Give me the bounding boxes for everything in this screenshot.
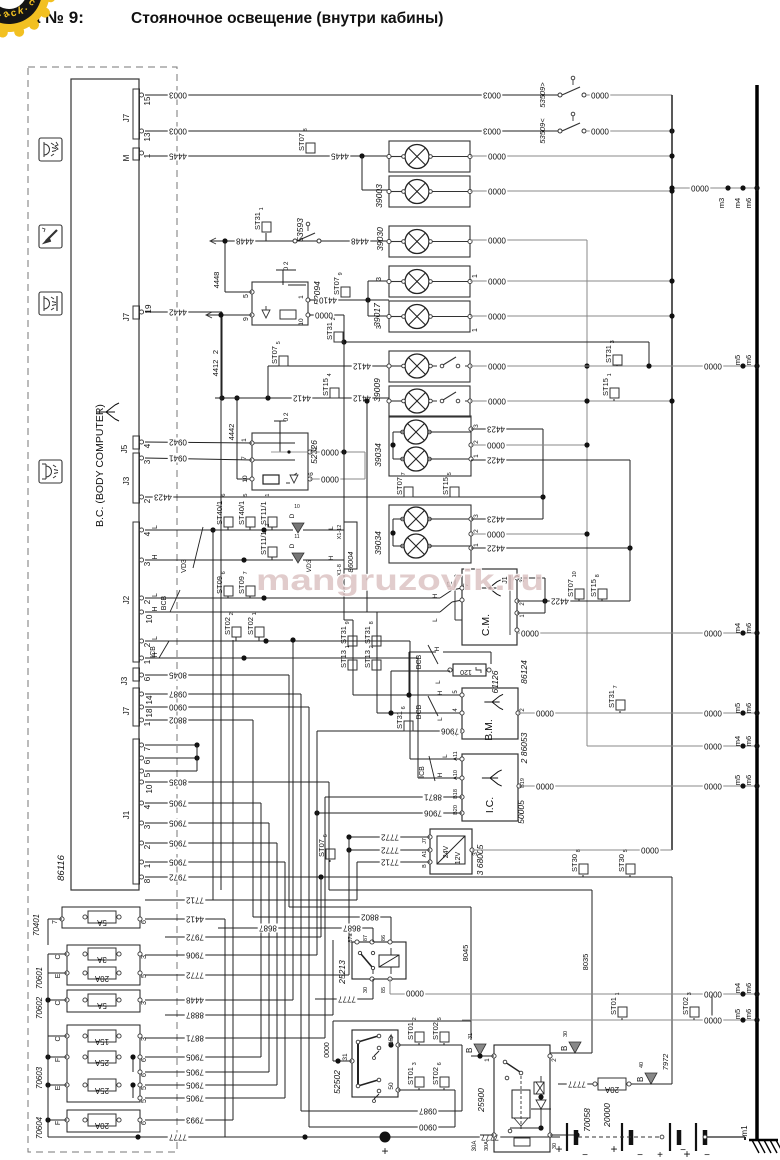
svg-text:0000: 0000 bbox=[488, 151, 506, 160]
svg-text:J2: J2 bbox=[122, 595, 131, 604]
svg-text:3: 3 bbox=[143, 561, 152, 566]
wire 52502 pin50 bbox=[398, 1090, 455, 1127]
svg-text:0987: 0987 bbox=[419, 1106, 437, 1115]
svg-text:ST01: ST01 bbox=[406, 1067, 415, 1085]
connector J1 pins bbox=[122, 739, 154, 884]
svg-text:ICB: ICB bbox=[150, 646, 157, 658]
svg-text:m6: m6 bbox=[744, 355, 753, 365]
svg-text:10: 10 bbox=[298, 318, 305, 326]
wire 4445 pin M1 to lamps 39003 bbox=[145, 151, 389, 190]
svg-text:ST31: ST31 bbox=[395, 711, 404, 729]
svg-text:2 86053: 2 86053 bbox=[519, 732, 529, 764]
header title bbox=[0, 8, 443, 27]
svg-text:8871: 8871 bbox=[186, 1033, 204, 1042]
svg-text:7: 7 bbox=[52, 920, 59, 924]
svg-text:30: 30 bbox=[563, 1031, 569, 1037]
splice ST07 9 on wire 4410 bbox=[332, 272, 350, 297]
reference 52502 bbox=[332, 1070, 342, 1094]
svg-text:J3: J3 bbox=[120, 676, 129, 685]
wire J2-2 L to C.M. bbox=[145, 588, 462, 601]
wire J1-5 stub bbox=[145, 770, 197, 772]
splice ST07 7 bbox=[395, 472, 413, 497]
svg-text:ST07: ST07 bbox=[395, 477, 404, 495]
svg-text:7: 7 bbox=[613, 685, 619, 688]
splice ST15 8 bbox=[589, 574, 607, 601]
svg-text:0000: 0000 bbox=[521, 628, 539, 637]
svg-text:C.M.: C.M. bbox=[480, 614, 492, 636]
svg-text:−: − bbox=[704, 1150, 710, 1160]
wire 0942 pin J5-4 to 52326 bbox=[145, 437, 252, 446]
svg-text:61126: 61126 bbox=[490, 670, 500, 693]
wire 7905 fuse 70603b bbox=[145, 1052, 261, 1061]
svg-text:8045: 8045 bbox=[461, 945, 470, 962]
reference 25900 bbox=[476, 1088, 486, 1113]
ground label m4 m6 at 633 bbox=[733, 623, 753, 633]
svg-text:mangruzovik.ru: mangruzovik.ru bbox=[256, 564, 544, 597]
splice ST31 2 bbox=[325, 317, 343, 342]
wire 0000 39034b pin2 bbox=[471, 529, 590, 538]
svg-text:10: 10 bbox=[294, 504, 300, 510]
wire 7972 pin J1-8 bbox=[145, 872, 672, 1020]
svg-text:m5: m5 bbox=[733, 1009, 742, 1019]
svg-text:20A: 20A bbox=[94, 1121, 109, 1130]
svg-text:M: M bbox=[122, 154, 131, 161]
reference 86053 bbox=[519, 732, 529, 764]
pin J7-13 bbox=[139, 129, 152, 142]
wire 7905 pin J1-4 bbox=[145, 798, 261, 1057]
wire 8045 drop to main switch bbox=[461, 907, 471, 1021]
svg-text:3A: 3A bbox=[96, 955, 106, 964]
wire J2-1 H to I.C. bbox=[145, 652, 462, 778]
wire 0000 B.M. to ground m5 m6 bbox=[518, 708, 760, 717]
svg-text:15: 15 bbox=[143, 96, 152, 105]
svg-text:7906: 7906 bbox=[441, 726, 459, 735]
svg-text:50005: 50005 bbox=[516, 800, 526, 824]
wire 0000 switch b to bus bbox=[586, 126, 675, 135]
svg-text:7777: 7777 bbox=[169, 1132, 187, 1141]
svg-text:0000: 0000 bbox=[704, 989, 722, 998]
switch 53509< bbox=[538, 112, 586, 143]
svg-text:J1: J1 bbox=[122, 810, 131, 819]
wire 4442 to 52326 pin10 bbox=[227, 395, 252, 479]
splice ST09 a bbox=[215, 571, 233, 598]
bed module B.M. box bbox=[453, 688, 526, 741]
svg-text:ST07: ST07 bbox=[566, 579, 575, 597]
wire 52502 pin15 bbox=[398, 1045, 462, 1111]
svg-text:5: 5 bbox=[447, 472, 453, 475]
wire 0941 pin J3-3 to 52326 bbox=[145, 453, 252, 462]
wire 4423 39034b pin3 bbox=[471, 514, 543, 523]
wire BCB L to 61126 bbox=[391, 671, 450, 713]
svg-text:7972: 7972 bbox=[169, 872, 187, 881]
svg-text:70603: 70603 bbox=[35, 1066, 44, 1089]
ground label m5 m6 at 713 bbox=[733, 703, 753, 713]
svg-text:8802: 8802 bbox=[361, 912, 379, 921]
svg-text:ST09: ST09 bbox=[215, 576, 224, 594]
reference 50005 bbox=[516, 800, 526, 824]
lamp 39030 bbox=[387, 226, 472, 257]
svg-text:ST07: ST07 bbox=[332, 277, 341, 295]
svg-text:7905: 7905 bbox=[186, 1067, 204, 1076]
wire 0900 pin J7-18 bbox=[145, 702, 455, 1131]
wire 4412 branch to lamp 39009a bbox=[268, 361, 389, 398]
svg-text:ST11/1: ST11/1 bbox=[259, 501, 268, 525]
wire 8035 pin J1-10 bbox=[145, 777, 592, 1053]
wire 4422 C.M. pin2 bbox=[517, 596, 630, 605]
battery cells 20000 bbox=[555, 1123, 745, 1160]
svg-text:7905: 7905 bbox=[169, 838, 187, 847]
wire J2-4 L to diode D10 bbox=[145, 525, 344, 533]
svg-text:2: 2 bbox=[551, 1058, 558, 1062]
svg-text:7972: 7972 bbox=[186, 932, 204, 941]
splice ST30 8 bbox=[570, 849, 588, 877]
svg-text:0941: 0941 bbox=[169, 453, 187, 462]
reference 68005 bbox=[475, 844, 485, 875]
wire 7772 to 68005 A1 bbox=[346, 845, 430, 854]
svg-text:+: + bbox=[381, 1144, 388, 1158]
splice ST31 7 bbox=[607, 685, 625, 713]
svg-text:8887: 8887 bbox=[186, 1010, 204, 1019]
lamp-switch 39009 upper bbox=[387, 351, 472, 382]
svg-text:86: 86 bbox=[381, 935, 387, 941]
vertical feed A to B.M. bbox=[344, 342, 462, 698]
svg-text:7905: 7905 bbox=[186, 1080, 204, 1089]
svg-text:m5: m5 bbox=[733, 355, 742, 365]
svg-text:87: 87 bbox=[363, 935, 369, 941]
svg-text:ST07: ST07 bbox=[297, 133, 306, 151]
svg-text:8871: 8871 bbox=[424, 792, 442, 801]
svg-text:A10: A10 bbox=[453, 770, 459, 780]
svg-text:39009: 39009 bbox=[372, 378, 382, 402]
svg-text:B: B bbox=[422, 864, 428, 868]
svg-text:H: H bbox=[328, 555, 335, 560]
svg-text:m6: m6 bbox=[744, 983, 753, 993]
lamp 39003 lower bbox=[387, 176, 472, 207]
svg-text:ST02: ST02 bbox=[246, 617, 255, 635]
wire 0000 relay 85 to ground m4 m6 bbox=[390, 979, 760, 999]
svg-text:4: 4 bbox=[143, 443, 152, 448]
ground label m4 m6 at 994 bbox=[733, 983, 753, 993]
connector M pin 1 bbox=[122, 148, 152, 161]
bolt ground B30 right bbox=[560, 995, 712, 1053]
svg-text:0000: 0000 bbox=[691, 183, 709, 192]
reference 39034 second bbox=[373, 531, 383, 555]
svg-text:J3: J3 bbox=[122, 476, 131, 485]
wire 0000 C.M. pin9 to ground m4 m6 bbox=[517, 628, 760, 637]
svg-text:m1: m1 bbox=[740, 1125, 749, 1137]
svg-text:0000: 0000 bbox=[591, 126, 609, 135]
svg-text:14: 14 bbox=[145, 695, 154, 704]
svg-text:85: 85 bbox=[381, 987, 387, 993]
svg-text:B: B bbox=[560, 1046, 569, 1051]
svg-text:0000: 0000 bbox=[321, 447, 339, 456]
svg-text:0003: 0003 bbox=[483, 90, 501, 99]
splice ST02 b bbox=[246, 612, 264, 641]
wire 4422 39034a pin1 bbox=[471, 455, 633, 601]
svg-text:18: 18 bbox=[145, 708, 154, 717]
connector J7 top bbox=[122, 89, 140, 139]
svg-text:ST31: ST31 bbox=[325, 322, 334, 340]
svg-text:4412: 4412 bbox=[293, 393, 311, 402]
svg-text:0000: 0000 bbox=[488, 361, 506, 370]
svg-text:m4: m4 bbox=[733, 198, 742, 208]
wire 0000 to ground m5 m6 at 1020 bbox=[462, 1015, 760, 1045]
label ICB pair2 bbox=[419, 756, 435, 781]
svg-text:1: 1 bbox=[252, 612, 258, 615]
splice ST09 b bbox=[237, 571, 255, 598]
svg-text:4448: 4448 bbox=[236, 236, 254, 245]
svg-text:m6: m6 bbox=[744, 775, 753, 785]
svg-text:10: 10 bbox=[145, 614, 154, 623]
ground label m4 m6 at 746 bbox=[733, 736, 753, 746]
svg-text:A1: A1 bbox=[422, 851, 428, 858]
long vertical wire 2 from 52094 bbox=[218, 312, 223, 890]
resistor 61126 120ohm bbox=[448, 664, 491, 676]
svg-text:2: 2 bbox=[473, 529, 480, 533]
svg-text:m6: m6 bbox=[744, 1009, 753, 1019]
wire 0003 pin13 to switch 53509b bbox=[145, 126, 558, 135]
svg-text:70602: 70602 bbox=[35, 996, 44, 1019]
connector J7 pins 14 18 1 bbox=[122, 688, 154, 726]
svg-text:ST31: ST31 bbox=[607, 690, 616, 708]
reference 70602 bbox=[35, 996, 44, 1019]
switch 53509> bbox=[538, 76, 586, 107]
wire 0000 to ground m4 m6 at 746 bbox=[587, 741, 760, 750]
splice ST31 8 bbox=[363, 621, 381, 646]
reference 86124 bbox=[519, 660, 529, 684]
splice ST07 8 on wire 4445 bbox=[297, 128, 315, 153]
svg-text:7: 7 bbox=[241, 456, 248, 460]
battery positive node bbox=[380, 1132, 391, 1159]
svg-text:ST02: ST02 bbox=[681, 997, 690, 1015]
wire 4412 to lamp 39009b bbox=[215, 393, 389, 402]
svg-text:25A: 25A bbox=[94, 1086, 109, 1095]
svg-text:X1-12: X1-12 bbox=[337, 525, 343, 540]
reference 61126 bbox=[490, 670, 500, 693]
svg-text:H: H bbox=[437, 690, 444, 695]
splice ST31 3 bbox=[604, 340, 622, 366]
svg-text:ICB: ICB bbox=[419, 766, 426, 778]
svg-text:13: 13 bbox=[143, 132, 152, 141]
svg-text:m6: m6 bbox=[744, 736, 753, 746]
svg-text:10: 10 bbox=[572, 571, 578, 577]
splice ST02 3 bbox=[681, 992, 699, 1020]
svg-text:9: 9 bbox=[243, 317, 250, 321]
splice ST01 1 bbox=[609, 992, 627, 1020]
svg-text:4423: 4423 bbox=[487, 514, 505, 523]
svg-text:40: 40 bbox=[639, 1062, 645, 1068]
svg-text:4412: 4412 bbox=[353, 361, 371, 370]
svg-text:ST15: ST15 bbox=[589, 579, 598, 597]
svg-text:1: 1 bbox=[607, 373, 613, 376]
ignition switch 52502 bbox=[342, 1030, 400, 1103]
svg-text:3 68005: 3 68005 bbox=[475, 844, 485, 875]
svg-text:H: H bbox=[434, 646, 441, 651]
svg-text:86116: 86116 bbox=[56, 854, 67, 880]
wire 25900 30 to battery plus bbox=[550, 1132, 580, 1137]
svg-text:39034: 39034 bbox=[373, 443, 383, 467]
label BCB pair1 bbox=[161, 590, 439, 622]
splice ST11/1 a bbox=[259, 494, 277, 530]
svg-text:ST02: ST02 bbox=[223, 617, 232, 635]
wire 4448 fuse 70602 bbox=[145, 637, 296, 1004]
svg-text:C: C bbox=[55, 1036, 62, 1041]
svg-text:3: 3 bbox=[143, 824, 152, 829]
svg-text:24V: 24V bbox=[443, 845, 450, 858]
reference 70604 bbox=[35, 1116, 44, 1139]
svg-text:3: 3 bbox=[141, 955, 148, 959]
svg-text:1: 1 bbox=[484, 1058, 491, 1062]
svg-text:ST15: ST15 bbox=[601, 378, 610, 396]
svg-text:E: E bbox=[55, 973, 62, 978]
svg-text:1: 1 bbox=[473, 543, 480, 547]
wire 7906 to B.M. pin1 bbox=[317, 726, 462, 735]
wire 0000 I.C. to ground m5 m6 bbox=[519, 781, 760, 790]
svg-text:4448: 4448 bbox=[186, 995, 204, 1004]
svg-text:ST31: ST31 bbox=[253, 212, 262, 230]
svg-text:m3: m3 bbox=[717, 198, 726, 208]
wire 7777 bottom bbox=[48, 1132, 560, 1141]
svg-text:m5: m5 bbox=[733, 703, 742, 713]
B.C. body computer block bbox=[71, 79, 139, 890]
relay 25213 bbox=[348, 932, 406, 993]
label BCB pair2 bbox=[416, 645, 438, 669]
reference 70601 bbox=[35, 967, 44, 989]
svg-text:0000: 0000 bbox=[536, 781, 554, 790]
svg-text:8: 8 bbox=[595, 574, 601, 577]
svg-text:70604: 70604 bbox=[35, 1116, 44, 1139]
splice ST15 5 bbox=[441, 472, 459, 497]
svg-text:B: B bbox=[636, 1077, 645, 1082]
ground label m5 m6 wire at 365 bbox=[0, 0, 1, 1]
ground symbol m1 bbox=[740, 1125, 780, 1153]
svg-text:0000: 0000 bbox=[704, 781, 722, 790]
wire 4448 switch 53593 line bbox=[210, 236, 389, 245]
splice ST02 6 bbox=[431, 1062, 449, 1090]
svg-text:4442: 4442 bbox=[169, 307, 187, 316]
svg-text:25213: 25213 bbox=[337, 960, 347, 985]
svg-text:70401: 70401 bbox=[32, 914, 41, 936]
svg-text:ST15: ST15 bbox=[321, 378, 330, 396]
vertical feed B to B.M. bbox=[364, 398, 462, 715]
svg-text:70601: 70601 bbox=[35, 967, 44, 989]
svg-text:ST09: ST09 bbox=[237, 576, 246, 594]
svg-text:2: 2 bbox=[473, 440, 480, 444]
wire 0003 pin15 to switch 53509a bbox=[145, 90, 558, 99]
svg-text:Стояночное освещение (внутри к: Стояночное освещение (внутри кабины) bbox=[131, 10, 443, 27]
svg-text:B.C. (BODY COMPUTER): B.C. (BODY COMPUTER) bbox=[94, 404, 106, 527]
reference 39017 bbox=[372, 303, 382, 327]
svg-text:5: 5 bbox=[243, 494, 249, 497]
svg-text:2: 2 bbox=[143, 498, 152, 503]
svg-text:ST31: ST31 bbox=[604, 345, 613, 363]
svg-text:H: H bbox=[152, 606, 159, 611]
svg-text:86124: 86124 bbox=[519, 660, 529, 684]
wire 4422 39034b pin1 bbox=[471, 543, 630, 552]
svg-text:2: 2 bbox=[265, 524, 271, 527]
svg-text:L: L bbox=[435, 680, 442, 684]
wire 0000 lamp 39030 return bbox=[470, 235, 590, 446]
svg-text:0000: 0000 bbox=[704, 628, 722, 637]
wire 7905 row4 bbox=[145, 1093, 285, 1102]
splice ST07 6 bbox=[317, 834, 335, 862]
svg-text:+: + bbox=[657, 1150, 663, 1160]
wire 7906 fuse 70601a bbox=[145, 731, 317, 960]
svg-text:53509>: 53509> bbox=[538, 82, 547, 108]
svg-text:0900: 0900 bbox=[419, 1122, 437, 1131]
wire 0000 52502 pin31 bbox=[324, 1021, 471, 1064]
reference 39003 bbox=[374, 184, 384, 208]
svg-text:8035: 8035 bbox=[169, 777, 187, 786]
svg-text:2: 2 bbox=[369, 645, 375, 648]
wire 0000 lamp 39003b return bbox=[470, 186, 675, 195]
svg-text:0000: 0000 bbox=[704, 741, 722, 750]
svg-text:L: L bbox=[432, 618, 439, 622]
svg-text:8: 8 bbox=[303, 128, 309, 131]
svg-text:8035: 8035 bbox=[581, 954, 590, 971]
svg-text:7972: 7972 bbox=[661, 1053, 670, 1071]
wire 7993 fuse 70604 bbox=[145, 640, 233, 1125]
splice ST15 1 bbox=[601, 373, 619, 401]
svg-text:4448: 4448 bbox=[212, 272, 221, 289]
svg-text:7905: 7905 bbox=[186, 1093, 204, 1102]
svg-text:L: L bbox=[152, 525, 159, 529]
svg-text:m6: m6 bbox=[744, 198, 753, 208]
svg-text:20A: 20A bbox=[604, 1085, 619, 1094]
splice ST02 5 bbox=[431, 1017, 449, 1045]
pin J7-15 bbox=[139, 93, 152, 106]
svg-text:7906: 7906 bbox=[186, 950, 204, 959]
svg-text:0003: 0003 bbox=[169, 90, 187, 99]
wire 7905 pin J1-3 bbox=[145, 818, 269, 1072]
svg-text:10: 10 bbox=[242, 475, 249, 483]
long vertical pair a bbox=[210, 527, 215, 900]
svg-text:ST01: ST01 bbox=[406, 1022, 415, 1040]
svg-text:5: 5 bbox=[143, 772, 152, 777]
svg-text:5: 5 bbox=[437, 1017, 443, 1020]
svg-text:0942: 0942 bbox=[169, 437, 187, 446]
wire 0000 lamp 39017b return bbox=[470, 311, 675, 320]
svg-text:6: 6 bbox=[323, 834, 329, 837]
svg-text:6: 6 bbox=[221, 571, 227, 574]
wire 8802 pin J7-1 bbox=[145, 715, 391, 942]
svg-text:+: + bbox=[683, 1147, 690, 1160]
return bus vertical bbox=[671, 95, 673, 850]
wire 7972 drop to fuse 70058 bbox=[661, 1020, 672, 1084]
svg-text:0000: 0000 bbox=[536, 708, 554, 717]
svg-text:L: L bbox=[328, 526, 335, 530]
B.C. reference 86116 bbox=[56, 854, 67, 880]
splice ST01 3 bbox=[406, 1062, 424, 1090]
svg-text:J7: J7 bbox=[122, 312, 131, 321]
connector J3 pin 6 bbox=[120, 668, 152, 685]
svg-text:J5: J5 bbox=[120, 444, 129, 453]
svg-text:ST13: ST13 bbox=[339, 650, 348, 668]
svg-text:50: 50 bbox=[388, 1082, 395, 1090]
fuse 70058 20A bbox=[558, 1078, 631, 1094]
lamp-switch 39009 lower bbox=[387, 386, 472, 417]
reference 70401 bbox=[32, 914, 41, 936]
wire 7905 row2 bbox=[145, 1067, 269, 1076]
svg-text:7993: 7993 bbox=[186, 1115, 204, 1124]
lamp 39017 upper bbox=[376, 266, 479, 297]
wire 7712 to 68005 B bbox=[357, 857, 430, 866]
svg-text:12V: 12V bbox=[455, 851, 462, 864]
svg-text:53593: 53593 bbox=[295, 218, 305, 242]
svg-text:0003: 0003 bbox=[169, 126, 187, 135]
reference 52094 bbox=[312, 281, 322, 305]
svg-text:6: 6 bbox=[401, 706, 407, 709]
